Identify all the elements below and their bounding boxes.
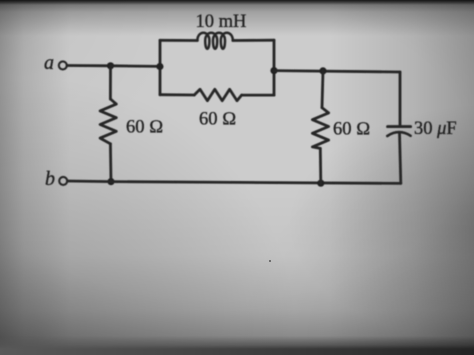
svg-text:10 mH: 10 mH	[196, 12, 247, 32]
junction node (bottom left)	[107, 178, 114, 185]
junction node (bottom right)	[317, 180, 324, 187]
wire right resistor top lead	[322, 71, 323, 108]
junction node (box left)	[156, 63, 163, 70]
resistor 60Ω (right branch)	[312, 108, 328, 149]
svg-text:b: b	[45, 168, 55, 190]
wire b to bottom junction	[68, 180, 111, 183]
resistor 60Ω (inside box, horizontal)	[194, 89, 241, 100]
terminal b	[59, 177, 67, 185]
svg-text:60 Ω: 60 Ω	[126, 118, 163, 138]
inductor 10 mH (coil)	[197, 33, 232, 49]
wire junction to box left node	[111, 64, 161, 67]
speck artifact	[269, 260, 271, 262]
svg-text:60 Ω: 60 Ω	[199, 110, 236, 130]
capacitor 30µF bottom plate (arc)	[387, 132, 410, 136]
wire box top edge right segment	[233, 39, 274, 42]
wire left branch down to resistor	[109, 66, 112, 99]
wire box right edge	[273, 40, 276, 95]
svg-text:60 Ω: 60 Ω	[333, 120, 370, 140]
terminal a	[59, 61, 67, 69]
capacitor 30µF top plate	[388, 125, 411, 128]
wire box bottom edge left segment	[160, 93, 194, 96]
wire box top edge left segment	[160, 39, 197, 42]
wire resistor bottom to bottom rail	[109, 144, 112, 182]
wire right resistor bottom lead	[319, 148, 322, 183]
junction node (top left)	[107, 62, 114, 69]
resistor 60Ω (left branch)	[100, 99, 116, 144]
junction node (box right)	[270, 67, 277, 74]
capacitor 30µF top lead	[399, 72, 402, 125]
capacitor 30µF bottom lead	[400, 133, 401, 184]
wire a to first junction	[67, 64, 110, 67]
wire top rail right (box to capacitor corner)	[274, 71, 400, 72]
svg-text:a: a	[44, 52, 54, 74]
wire box left edge	[159, 40, 162, 94]
junction node (top right)	[319, 67, 326, 74]
svg-text:30 μF: 30 μF	[414, 119, 457, 139]
wire box bottom edge right segment	[242, 94, 274, 97]
wire bottom rail	[111, 182, 401, 184]
